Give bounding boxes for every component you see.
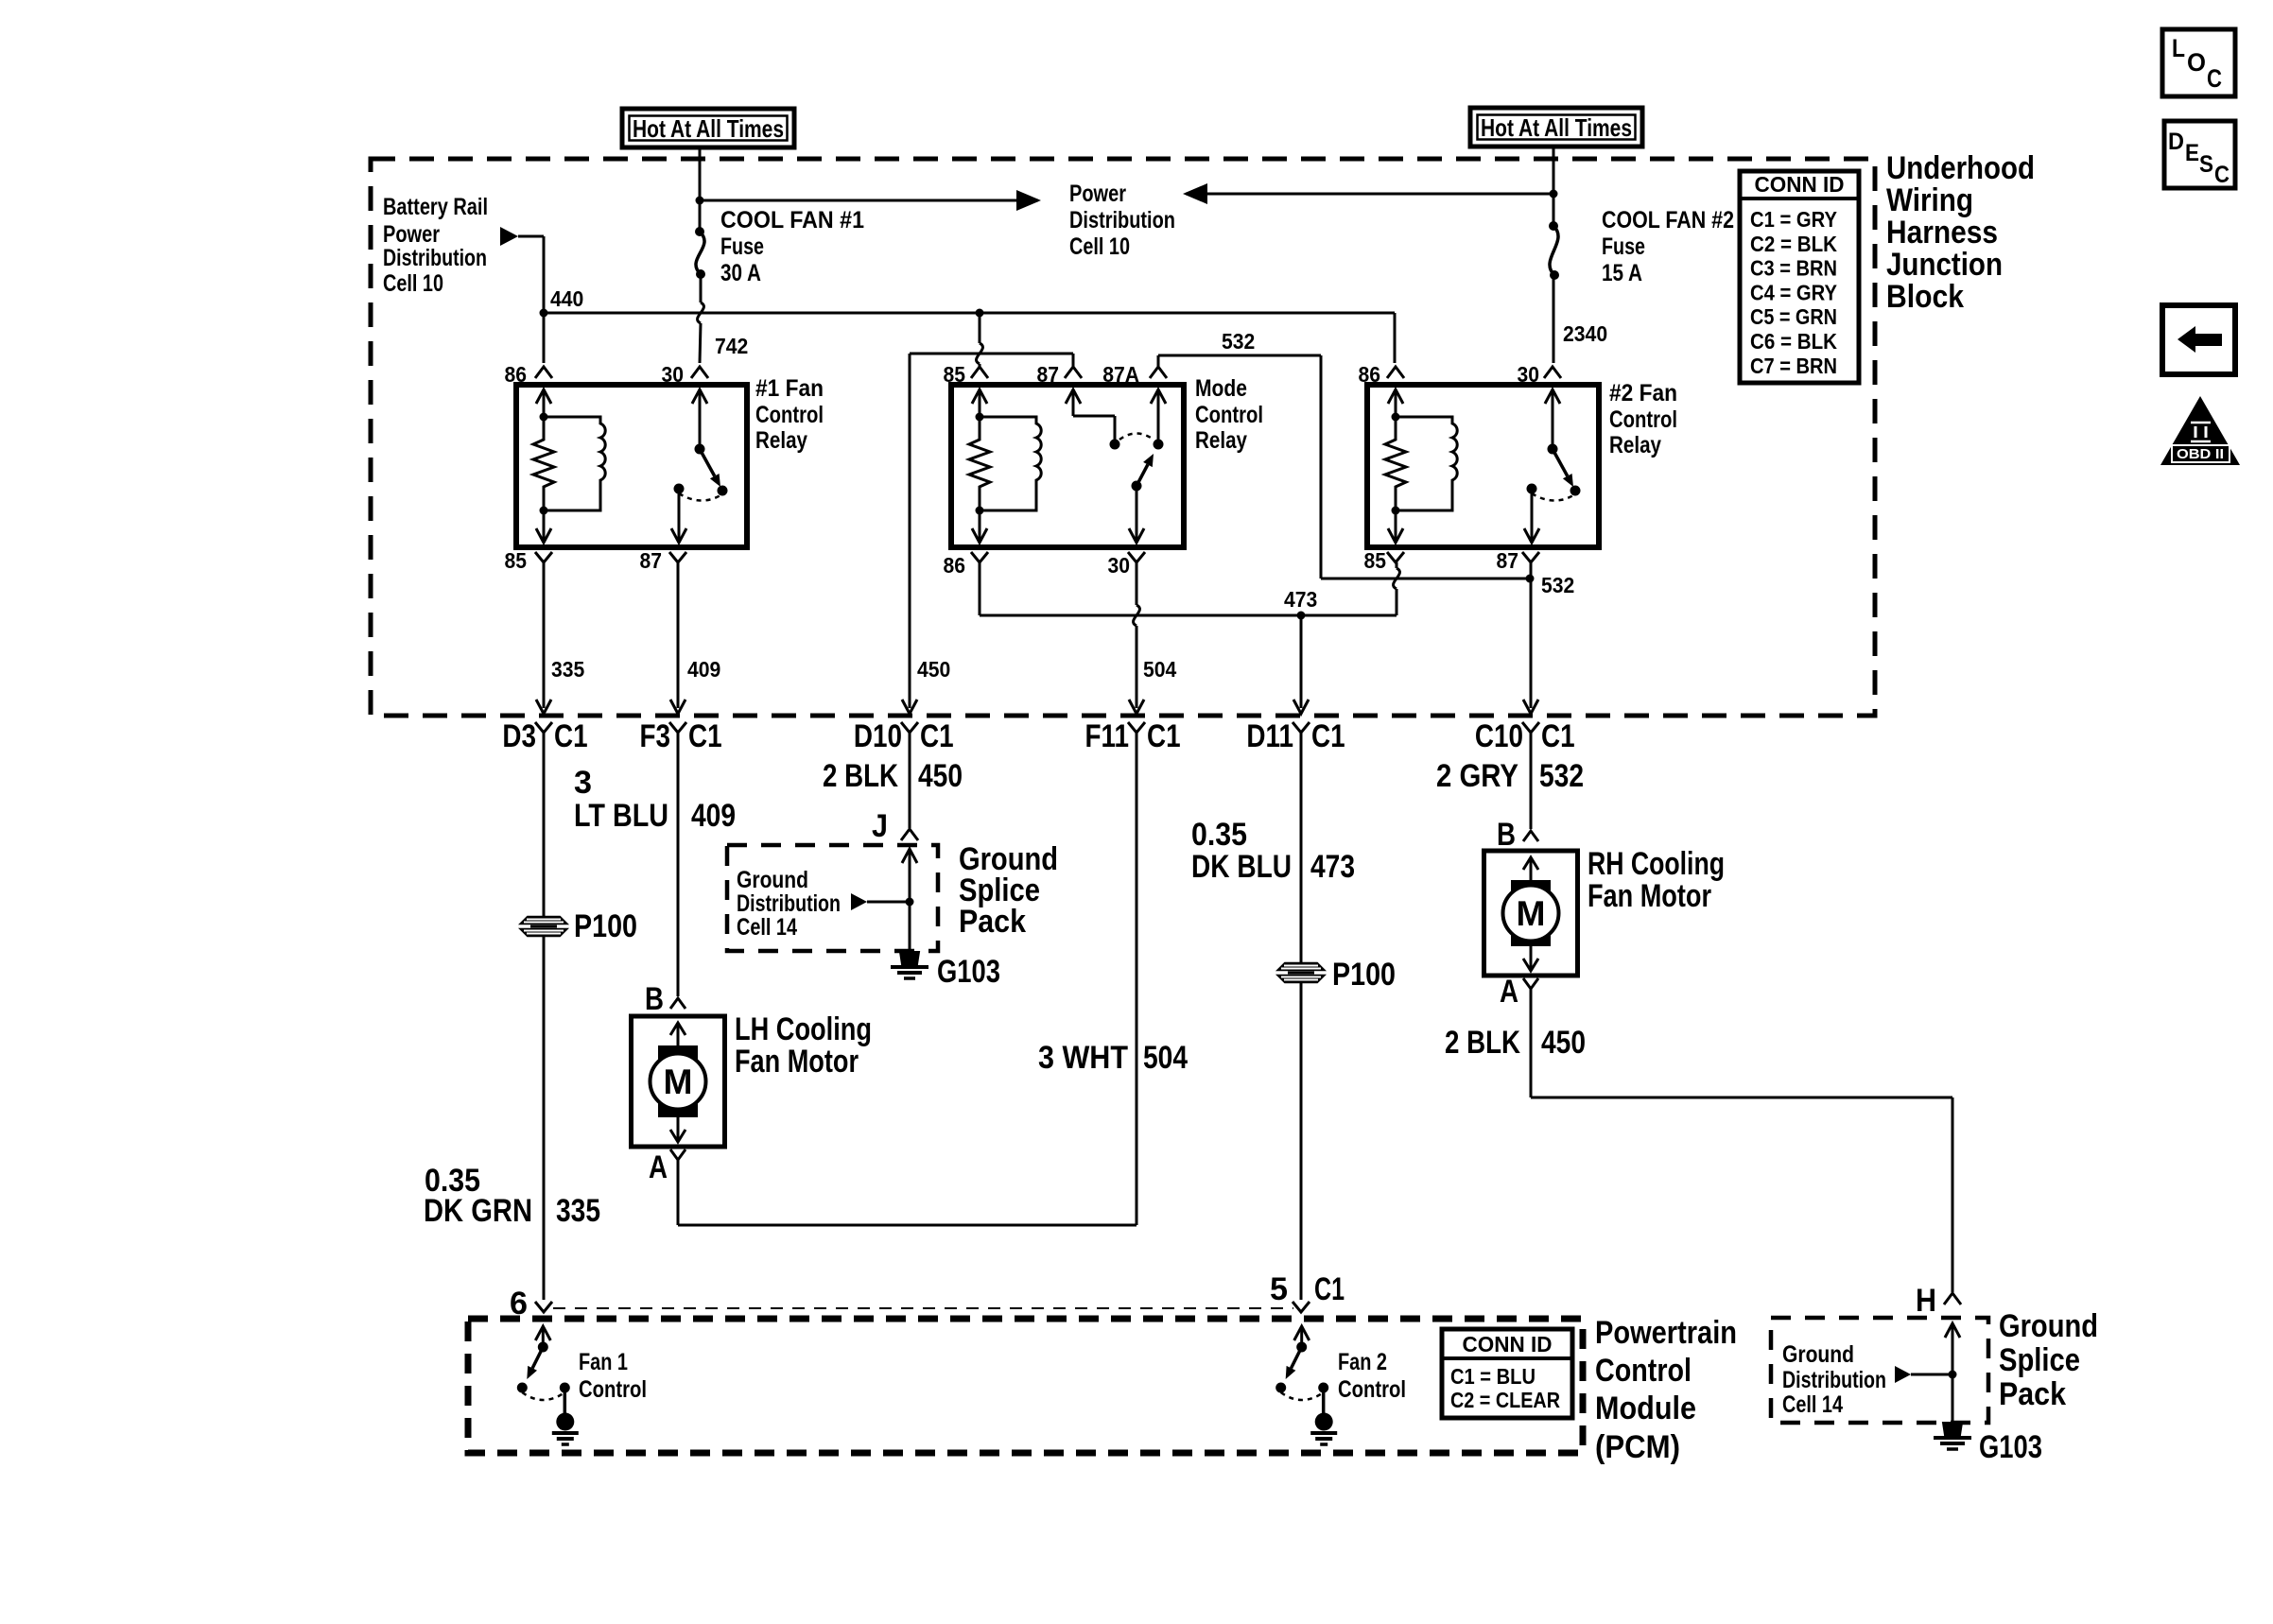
- svg-text:C1 = GRY: C1 = GRY: [1750, 207, 1837, 232]
- svg-text:Distribution: Distribution: [737, 890, 841, 917]
- svg-text:409: 409: [691, 798, 736, 834]
- svg-text:450: 450: [1541, 1025, 1586, 1061]
- svg-text:O: O: [2187, 48, 2206, 77]
- svg-text:G103: G103: [937, 954, 1000, 990]
- svg-text:Fuse: Fuse: [720, 233, 764, 260]
- svg-text:504: 504: [1143, 657, 1176, 682]
- svg-text:A: A: [649, 1149, 668, 1185]
- svg-text:P100: P100: [574, 908, 637, 944]
- svg-text:Cell 10: Cell 10: [383, 270, 443, 297]
- svg-text:30: 30: [1108, 553, 1131, 578]
- svg-text:F11: F11: [1085, 718, 1130, 754]
- svg-text:Control: Control: [1195, 402, 1263, 428]
- svg-text:532: 532: [1541, 573, 1574, 597]
- svg-text:86: 86: [505, 362, 528, 387]
- svg-text:Underhood: Underhood: [1886, 150, 2035, 186]
- svg-text:87A: 87A: [1102, 362, 1139, 387]
- svg-text:Distribution: Distribution: [383, 245, 487, 271]
- svg-text:30 A: 30 A: [720, 260, 761, 286]
- svg-text:S: S: [2199, 151, 2213, 178]
- svg-text:2340: 2340: [1563, 321, 1607, 346]
- svg-text:0.35: 0.35: [1191, 817, 1247, 853]
- svg-text:473: 473: [1284, 587, 1317, 612]
- svg-text:Control: Control: [1595, 1353, 1692, 1389]
- svg-text:Cell 14: Cell 14: [737, 914, 797, 941]
- svg-text:Junction: Junction: [1886, 247, 2003, 283]
- svg-text:LH Cooling: LH Cooling: [735, 1011, 872, 1047]
- svg-text:B: B: [645, 981, 664, 1017]
- svg-text:Fan 1: Fan 1: [579, 1349, 628, 1375]
- svg-text:Cell 10: Cell 10: [1069, 233, 1130, 260]
- svg-text:504: 504: [1143, 1040, 1188, 1076]
- svg-text:B: B: [1497, 817, 1516, 853]
- svg-text:Pack: Pack: [1999, 1376, 2066, 1412]
- svg-text:450: 450: [918, 758, 963, 794]
- svg-text:15 A: 15 A: [1602, 260, 1642, 286]
- svg-text:Control: Control: [755, 402, 824, 428]
- svg-text:C5 = GRN: C5 = GRN: [1750, 304, 1837, 329]
- svg-text:DK GRN: DK GRN: [424, 1193, 532, 1229]
- svg-text:C7 = BRN: C7 = BRN: [1750, 354, 1837, 378]
- svg-text:86: 86: [944, 553, 966, 578]
- svg-text:Power: Power: [383, 221, 440, 248]
- svg-text:Control: Control: [1609, 406, 1677, 433]
- svg-text:Ground: Ground: [1999, 1308, 2098, 1344]
- svg-text:Pack: Pack: [959, 904, 1026, 940]
- svg-text:D: D: [2168, 129, 2184, 155]
- svg-text:Distribution: Distribution: [1069, 207, 1175, 233]
- svg-text:30: 30: [1518, 362, 1540, 387]
- svg-text:#1 Fan: #1 Fan: [755, 375, 824, 402]
- svg-text:Module: Module: [1595, 1391, 1696, 1426]
- svg-text:5: 5: [1270, 1271, 1288, 1307]
- svg-text:Relay: Relay: [1195, 427, 1247, 454]
- svg-text:OBD II: OBD II: [2177, 446, 2224, 462]
- svg-text:450: 450: [917, 657, 950, 682]
- svg-text:H: H: [1916, 1283, 1936, 1319]
- svg-text:D10: D10: [854, 718, 902, 754]
- svg-text:COOL FAN #2: COOL FAN #2: [1602, 207, 1734, 233]
- svg-text:87: 87: [1037, 362, 1060, 387]
- svg-text:C3 = BRN: C3 = BRN: [1750, 256, 1837, 281]
- svg-text:532: 532: [1222, 329, 1255, 354]
- svg-text:C10: C10: [1475, 718, 1523, 754]
- svg-text:COOL FAN #1: COOL FAN #1: [720, 207, 864, 233]
- svg-text:Battery Rail: Battery Rail: [383, 194, 488, 220]
- svg-text:Fuse: Fuse: [1602, 233, 1645, 260]
- svg-text:C1: C1: [920, 718, 954, 754]
- svg-text:Ground: Ground: [737, 867, 808, 893]
- svg-text:Ground: Ground: [1782, 1341, 1854, 1368]
- svg-text:Control: Control: [579, 1376, 647, 1403]
- svg-text:86: 86: [1359, 362, 1381, 387]
- svg-text:Cell 14: Cell 14: [1782, 1391, 1843, 1418]
- svg-text:Fan Motor: Fan Motor: [1588, 878, 1711, 914]
- svg-text:E: E: [2185, 140, 2199, 166]
- svg-text:J: J: [872, 808, 888, 844]
- svg-text:F3: F3: [640, 718, 671, 754]
- svg-text:C2 = CLEAR: C2 = CLEAR: [1450, 1388, 1560, 1412]
- svg-text:C6 = BLK: C6 = BLK: [1750, 329, 1837, 354]
- svg-text:DK BLU: DK BLU: [1191, 849, 1292, 885]
- svg-text:2 BLK: 2 BLK: [1445, 1025, 1520, 1061]
- svg-text:Power: Power: [1069, 181, 1126, 207]
- svg-text:Relay: Relay: [1609, 432, 1661, 458]
- svg-text:M: M: [664, 1063, 693, 1101]
- svg-text:2 GRY: 2 GRY: [1436, 758, 1518, 794]
- svg-text:473: 473: [1310, 849, 1355, 885]
- svg-text:A: A: [1500, 974, 1518, 1010]
- svg-text:Distribution: Distribution: [1782, 1367, 1886, 1393]
- svg-text:3 WHT: 3 WHT: [1038, 1040, 1128, 1076]
- svg-text:Harness: Harness: [1886, 215, 1998, 251]
- svg-text:C: C: [2214, 162, 2230, 188]
- svg-text:335: 335: [556, 1193, 600, 1229]
- svg-text:D11: D11: [1246, 718, 1293, 754]
- svg-text:440: 440: [550, 286, 583, 311]
- svg-text:C1 = BLU: C1 = BLU: [1450, 1364, 1536, 1389]
- svg-text:RH Cooling: RH Cooling: [1588, 846, 1725, 882]
- svg-text:CONN ID: CONN ID: [1463, 1332, 1553, 1356]
- svg-text:6: 6: [510, 1286, 528, 1322]
- svg-text:P100: P100: [1332, 957, 1396, 993]
- svg-text:87: 87: [1497, 548, 1519, 573]
- svg-text:Splice: Splice: [1999, 1342, 2080, 1378]
- svg-text:532: 532: [1539, 758, 1584, 794]
- svg-text:30: 30: [662, 362, 685, 387]
- svg-text:85: 85: [944, 362, 966, 387]
- svg-text:Block: Block: [1886, 279, 1964, 315]
- svg-text:C4 = GRY: C4 = GRY: [1750, 280, 1837, 304]
- svg-text:LT BLU: LT BLU: [574, 798, 668, 834]
- svg-text:C1: C1: [1541, 718, 1575, 754]
- svg-text:CONN ID: CONN ID: [1755, 172, 1845, 197]
- svg-text:87: 87: [640, 548, 663, 573]
- svg-text:Mode: Mode: [1195, 375, 1247, 402]
- svg-text:(PCM): (PCM): [1595, 1429, 1680, 1465]
- svg-text:Powertrain: Powertrain: [1595, 1315, 1737, 1351]
- svg-text:C1: C1: [1311, 718, 1345, 754]
- svg-text:742: 742: [715, 334, 748, 358]
- svg-text:335: 335: [551, 657, 584, 682]
- svg-text:C: C: [2207, 64, 2222, 93]
- svg-text:Hot At All Times: Hot At All Times: [1481, 113, 1632, 142]
- svg-text:G103: G103: [1979, 1429, 2042, 1465]
- svg-text:C1: C1: [1314, 1271, 1345, 1307]
- svg-text:85: 85: [1364, 548, 1387, 573]
- svg-text:C1: C1: [554, 718, 588, 754]
- svg-text:#2 Fan: #2 Fan: [1609, 380, 1677, 406]
- svg-text:409: 409: [687, 657, 720, 682]
- svg-text:L: L: [2172, 34, 2185, 62]
- svg-text:85: 85: [505, 548, 528, 573]
- svg-text:2 BLK: 2 BLK: [823, 758, 898, 794]
- svg-text:Fan Motor: Fan Motor: [735, 1044, 859, 1080]
- svg-text:Relay: Relay: [755, 427, 807, 454]
- svg-text:Wiring: Wiring: [1886, 182, 1973, 218]
- svg-text:Control: Control: [1338, 1376, 1406, 1403]
- svg-text:3: 3: [574, 765, 592, 801]
- svg-text:M: M: [1517, 894, 1546, 933]
- svg-text:C1: C1: [1147, 718, 1181, 754]
- svg-text:Fan 2: Fan 2: [1338, 1349, 1387, 1375]
- svg-text:Hot At All Times: Hot At All Times: [633, 114, 784, 143]
- svg-text:C1: C1: [688, 718, 722, 754]
- svg-text:D3: D3: [502, 718, 536, 754]
- svg-text:C2 = BLK: C2 = BLK: [1750, 232, 1837, 256]
